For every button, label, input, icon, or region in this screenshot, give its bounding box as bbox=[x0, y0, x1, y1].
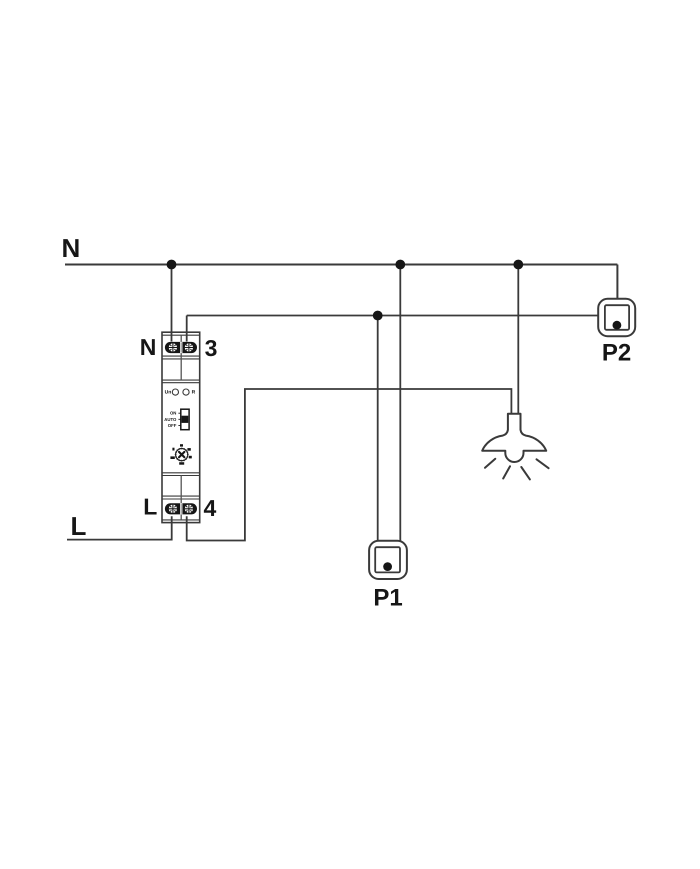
node junction N / lamp bbox=[513, 260, 523, 270]
svg-text:AUTO: AUTO bbox=[164, 417, 177, 422]
wire terminal 3 riser bbox=[186, 316, 188, 342]
LED label Un bbox=[165, 390, 172, 396]
wire N bus to terminal N bbox=[171, 265, 173, 342]
screw terminal 4 bbox=[184, 504, 193, 513]
wire control line to P1 bbox=[377, 316, 379, 541]
svg-text:L: L bbox=[143, 494, 157, 520]
lamp ray mid-right bbox=[521, 467, 530, 479]
dial scale mark lower-left bbox=[170, 456, 174, 459]
svg-text:Un: Un bbox=[165, 390, 172, 396]
LED label R bbox=[192, 390, 196, 396]
dial scale mark upper-right bbox=[187, 448, 190, 451]
pin label N bbox=[140, 334, 157, 360]
svg-text:L: L bbox=[71, 511, 87, 541]
wire control line to P2 bbox=[187, 315, 599, 317]
push button P2 bbox=[598, 299, 635, 336]
lamp ray right bbox=[537, 459, 549, 468]
svg-text:P1: P1 bbox=[373, 585, 402, 612]
pin label 4 bbox=[204, 495, 217, 521]
svg-text:ON: ON bbox=[170, 411, 176, 416]
wire N bus bbox=[65, 264, 617, 266]
rotary time dial bbox=[175, 448, 189, 462]
svg-text:R: R bbox=[192, 390, 196, 396]
label P1 bbox=[373, 585, 402, 612]
mode switch S1 bbox=[178, 409, 189, 430]
lamp ray mid-left bbox=[503, 466, 510, 478]
wire N bus drop to P2 bbox=[616, 265, 618, 299]
wire terminal L to L bbox=[67, 516, 172, 539]
LED Un bbox=[172, 389, 178, 395]
dial scale mark right bbox=[189, 456, 192, 459]
svg-text:OFF: OFF bbox=[168, 423, 177, 428]
screw terminal L bbox=[168, 504, 177, 513]
label P2 bbox=[602, 339, 631, 366]
lamp ray left bbox=[485, 459, 495, 468]
wire terminal 4 to lamp bbox=[187, 389, 512, 541]
dial scale mark upper-left bbox=[172, 448, 174, 451]
wire N bus to P1 bbox=[399, 265, 401, 541]
svg-text:3: 3 bbox=[205, 335, 218, 361]
pin label L bbox=[143, 494, 157, 520]
wire N bus to lamp bbox=[517, 265, 519, 414]
pin label 3 bbox=[205, 335, 218, 361]
net label L bbox=[71, 511, 87, 541]
push button P1 bbox=[369, 541, 407, 579]
node junction N / terminal N bbox=[167, 260, 177, 270]
node junction control / P1 bbox=[373, 311, 383, 321]
switch label AUTO bbox=[164, 417, 177, 422]
switch label ON bbox=[170, 411, 176, 416]
svg-text:N: N bbox=[140, 334, 157, 360]
timer relay module U1 body bbox=[162, 332, 200, 522]
node junction N / P1 bbox=[395, 260, 405, 270]
lamp E1 bbox=[482, 414, 546, 462]
switch label OFF bbox=[168, 423, 177, 428]
svg-text:N: N bbox=[62, 233, 81, 263]
svg-text:P2: P2 bbox=[602, 339, 631, 366]
net label N bbox=[62, 233, 81, 263]
dial scale mark top bbox=[180, 444, 183, 446]
svg-text:4: 4 bbox=[204, 495, 217, 521]
screw terminal 3 bbox=[184, 343, 193, 352]
LED R bbox=[183, 389, 189, 395]
screw terminal N bbox=[168, 343, 177, 352]
terminal block N/3 bbox=[165, 342, 197, 353]
dial scale mark bottom bbox=[179, 462, 184, 465]
terminal block L/4 bbox=[165, 503, 197, 514]
